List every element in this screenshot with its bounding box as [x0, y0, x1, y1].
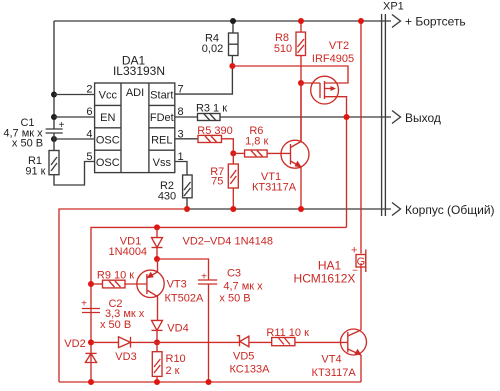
pin 2 label: [86, 84, 92, 96]
pin 7 label: [178, 84, 184, 96]
resistor R11: [266, 327, 347, 346]
svg-text:5: 5: [86, 151, 92, 163]
label VD2-VD4 1N4148: [183, 236, 274, 248]
node arrow Korpus: [392, 203, 495, 218]
svg-text:R3 1 к: R3 1 к: [196, 103, 227, 115]
wire pin2: [54, 94, 95, 96]
wire VD4 node to VD5: [157, 341, 240, 343]
svg-text:R11 10 к: R11 10 к: [266, 327, 309, 339]
resistor R1: [25, 151, 59, 178]
node VT3 emitter junction: [154, 256, 160, 262]
capacitor C3: [198, 268, 263, 383]
svg-text:2 к: 2 к: [166, 365, 180, 377]
node pin2 junction: [51, 92, 57, 98]
svg-text:х 50 В: х 50 В: [100, 319, 131, 331]
node VD4/R10 junction: [154, 339, 160, 345]
svg-text:2: 2: [86, 84, 92, 96]
node VD2 ground junction: [88, 379, 94, 385]
svg-text:VD4: VD4: [167, 323, 188, 335]
svg-text:VD2: VD2: [64, 338, 85, 350]
wire inner rail top: [91, 227, 347, 382]
svg-text:HA1: HA1: [318, 259, 342, 273]
diode VD3: [91, 337, 157, 363]
svg-text:C3: C3: [227, 268, 241, 280]
wire pin3 stub: [175, 138, 198, 140]
svg-text:+: +: [351, 245, 357, 257]
node R7 ground junction: [230, 206, 236, 212]
node R9 left junction: [88, 281, 94, 287]
resistor R10: [152, 342, 185, 382]
transistor Q4 : VT4 KT3117A: [312, 263, 367, 382]
node R8 top junction: [298, 18, 304, 24]
svg-text:+: +: [81, 299, 87, 310]
diode VD4: [152, 320, 189, 342]
svg-text:х 50 В: х 50 В: [219, 293, 250, 305]
pin 5 label: [86, 151, 92, 163]
svg-text:4,7 мк х: 4,7 мк х: [223, 281, 263, 293]
node VD1 top junction: [154, 224, 160, 230]
svg-text:1,8 к: 1,8 к: [245, 136, 268, 148]
svg-text:R5 390: R5 390: [197, 125, 232, 137]
buzzer HA1: [294, 245, 366, 286]
svg-text:IRF4905: IRF4905: [312, 53, 354, 65]
wire Vyhod line from R3 to connector: [220, 116, 391, 118]
node R10 ground junction: [154, 379, 160, 385]
node arrow Bortset: [392, 15, 466, 29]
svg-text:430: 430: [158, 191, 176, 203]
pin 8 label: [178, 106, 184, 118]
diode VD1: [109, 227, 163, 259]
wire pin4: [54, 138, 95, 140]
wire red bottom rail: [59, 381, 361, 383]
resistor R4: [202, 21, 238, 56]
svg-text:VT4: VT4: [321, 354, 341, 366]
svg-text:OSC: OSC: [96, 157, 120, 169]
svg-text:4: 4: [86, 129, 92, 141]
svg-text:КТ3117А: КТ3117А: [312, 367, 357, 379]
wire pin7 up to R4 bottom: [175, 56, 233, 95]
resistor R3: [196, 103, 227, 121]
resistor R7: [210, 153, 238, 209]
resistor R8: [274, 21, 306, 142]
pin 3 label: [178, 129, 184, 141]
svg-text:VD2–VD4 1N4148: VD2–VD4 1N4148: [183, 236, 274, 248]
connector XP1 double bars: [382, 1, 404, 217]
svg-text:Vcc: Vcc: [99, 90, 118, 102]
pin 4 label: [86, 129, 92, 141]
node R5/R6/R7 junction: [230, 150, 236, 156]
pin 6 label: [86, 106, 92, 118]
wire pin6: [54, 116, 95, 118]
wire R6 to VT1 base: [267, 152, 290, 154]
wire Korpus ground line: [187, 208, 391, 210]
diode VD2: [64, 338, 96, 363]
node VT1 emitter ground junction: [298, 206, 304, 212]
wire pin1 to R2: [175, 162, 187, 176]
svg-text:ADI: ADI: [126, 87, 144, 99]
op-amp U1 : IC DA1 IL33193N box: [95, 54, 175, 173]
transistor Q1 : VT1 KT3117A: [252, 83, 309, 209]
resistor R9: [91, 269, 147, 288]
svg-text:+: +: [201, 272, 207, 283]
svg-text:XP1: XP1: [383, 1, 404, 13]
svg-text:VT3: VT3: [167, 279, 187, 291]
svg-text:КТ502А: КТ502А: [165, 293, 204, 305]
transistor Q2 : VT2 IRF4905 MOSFET: [301, 40, 354, 117]
node drain-Vyhod junction: [344, 114, 350, 120]
wire emitter node to C3: [157, 259, 209, 280]
svg-text:91 к: 91 к: [25, 166, 45, 178]
capacitor C2: [81, 298, 145, 331]
svg-text:1N4004: 1N4004: [109, 246, 148, 258]
resistor R2: [158, 175, 192, 209]
node VD2 top junction: [88, 339, 94, 345]
svg-text:НСМ1612Х: НСМ1612Х: [294, 272, 356, 286]
node C3 ground junction: [206, 379, 212, 385]
node R4 top junction: [230, 18, 236, 24]
wire red left rail top: [59, 209, 187, 382]
node gate junction: [298, 80, 304, 86]
svg-text:VD5: VD5: [233, 351, 254, 363]
resistor R6: [233, 125, 268, 157]
resistor R5: [197, 125, 232, 143]
wire R5 to R6/R7 node: [222, 139, 234, 154]
svg-text:R10: R10: [166, 353, 186, 365]
pin 1 label: [178, 151, 184, 163]
wire MOSFET drain down through Vyhod to inner rail: [346, 117, 348, 227]
wire top supply rail: [54, 20, 391, 22]
svg-text:КС133А: КС133А: [230, 364, 271, 376]
node pin6 junction: [51, 114, 57, 120]
svg-text:+: +: [59, 120, 65, 131]
node shunt junction below R4: [229, 63, 235, 69]
svg-text:х 50 В: х 50 В: [12, 138, 43, 150]
node pin4 junction: [51, 136, 57, 142]
diode VD5 zener: [230, 336, 272, 376]
wire red HA1 supply from top rail: [360, 21, 362, 254]
svg-text:REL: REL: [151, 135, 172, 147]
svg-text:EN: EN: [100, 112, 115, 124]
svg-text:Start: Start: [150, 90, 173, 102]
svg-text:75: 75: [211, 176, 223, 188]
svg-text:510: 510: [274, 43, 292, 55]
svg-text:6: 6: [86, 106, 92, 118]
svg-text:8: 8: [178, 106, 184, 118]
svg-text:VT2: VT2: [329, 40, 349, 52]
svg-text:FDet: FDet: [150, 112, 174, 124]
capacitor C1: [3, 117, 64, 151]
svg-text:КТ3117А: КТ3117А: [252, 182, 297, 194]
node HA1 supply top junction: [358, 18, 364, 24]
svg-text:Выход: Выход: [405, 111, 441, 125]
svg-text:OSC: OSC: [96, 135, 120, 147]
svg-text:+ Бортсеть: + Бортсеть: [405, 15, 466, 29]
svg-text:0,02: 0,02: [202, 43, 223, 55]
node R2 ground junction: [184, 206, 190, 212]
svg-text:Корпус (Общий): Корпус (Общий): [405, 203, 495, 217]
svg-text:IL33193N: IL33193N: [113, 64, 165, 78]
node arrow Vyhod: [392, 111, 441, 126]
svg-text:VD3: VD3: [115, 351, 136, 363]
svg-text:Vss: Vss: [153, 157, 172, 169]
wire pin8 to R3: [175, 116, 198, 118]
wire left vertical from top rail to C1/R1 chain: [53, 21, 55, 129]
wire red shunt node to MOSFET drain: [232, 66, 348, 83]
transistor Q3 : VT3 KT502A: [137, 259, 204, 320]
svg-text:R9 10 к: R9 10 к: [97, 269, 134, 281]
wire R1 bottom to pin5: [54, 162, 95, 186]
